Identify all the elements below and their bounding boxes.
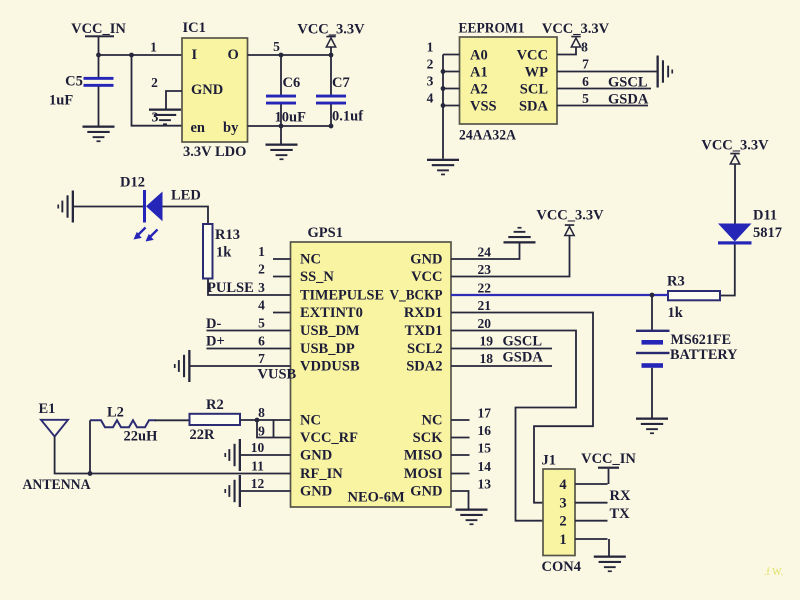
svg-text:0.1uf: 0.1uf [332,109,363,125]
svg-text:3: 3 [559,496,566,512]
svg-text:ANTENNA: ANTENNA [23,477,91,493]
svg-text:MS621FE: MS621FE [671,332,732,348]
svg-text:VCC_3.3V: VCC_3.3V [536,208,604,224]
svg-text:TX: TX [610,506,631,522]
svg-text:VCC_3.3V: VCC_3.3V [542,21,610,37]
svg-text:J1: J1 [542,453,557,469]
svg-text:BATTERY: BATTERY [670,347,738,363]
svg-text:1: 1 [427,40,434,55]
svg-text:17: 17 [478,406,492,421]
svg-text:2: 2 [151,75,158,90]
svg-text:4: 4 [427,91,434,106]
svg-text:GPS1: GPS1 [308,225,343,241]
svg-text:NC: NC [422,413,443,429]
svg-text:D+: D+ [206,334,225,350]
svg-text:SDA2: SDA2 [406,359,442,375]
svg-text:NEO-6M: NEO-6M [348,490,406,506]
svg-text:LED: LED [171,188,201,204]
svg-text:19: 19 [480,334,494,349]
svg-text:R13: R13 [215,227,240,243]
svg-text:24: 24 [478,245,492,260]
svg-text:GND: GND [191,82,223,98]
svg-text:C6: C6 [283,75,301,91]
svg-text:SCL: SCL [520,82,549,98]
svg-text:10: 10 [251,440,265,455]
svg-text:23: 23 [478,262,492,277]
svg-text:D11: D11 [753,208,777,224]
svg-text:5: 5 [582,91,589,106]
svg-text:USB_DP: USB_DP [300,341,355,357]
svg-text:15: 15 [478,441,492,456]
svg-text:RX: RX [610,488,631,504]
svg-text:5: 5 [273,39,280,54]
svg-text:GSCL: GSCL [608,75,648,91]
svg-text:VDDUSB: VDDUSB [300,359,360,375]
svg-text:6: 6 [258,334,265,349]
svg-text:4: 4 [258,298,265,313]
svg-text:VCC_IN: VCC_IN [581,451,636,467]
svg-text:VCC_3.3V: VCC_3.3V [297,22,365,38]
svg-text:.f W.: .f W. [764,567,783,578]
svg-text:22R: 22R [190,427,216,443]
svg-text:EXTINT0: EXTINT0 [300,305,363,321]
svg-text:TXD1: TXD1 [405,323,443,339]
svg-text:V_BCKP: V_BCKP [390,288,443,304]
svg-text:1uF: 1uF [49,93,73,109]
svg-text:7: 7 [582,57,589,72]
svg-text:21: 21 [478,298,492,313]
svg-text:5817: 5817 [753,225,782,241]
svg-text:3: 3 [258,280,265,295]
svg-text:VCC_RF: VCC_RF [300,430,358,446]
svg-text:SDA: SDA [519,99,549,115]
svg-text:1: 1 [150,40,157,55]
svg-text:SCK: SCK [413,430,444,446]
svg-text:VCC: VCC [411,269,442,285]
svg-text:en: en [191,120,206,136]
svg-text:GSCL: GSCL [503,334,543,350]
svg-text:D12: D12 [120,175,145,191]
svg-text:NC: NC [300,413,321,429]
svg-text:by: by [223,120,239,136]
svg-text:VCC_IN: VCC_IN [71,21,126,37]
svg-text:10uF: 10uF [275,110,307,126]
svg-text:VCC_3.3V: VCC_3.3V [701,138,769,154]
svg-text:8: 8 [581,40,588,55]
svg-text:1k: 1k [216,245,232,261]
svg-text:GND: GND [300,484,332,500]
svg-text:NC: NC [300,252,321,268]
svg-text:22uH: 22uH [124,429,159,445]
svg-text:1: 1 [559,532,566,548]
svg-text:1: 1 [258,244,265,259]
svg-text:11: 11 [251,458,264,473]
svg-text:GND: GND [300,448,332,464]
svg-text:12: 12 [251,476,265,491]
svg-text:A2: A2 [470,82,488,98]
svg-text:4: 4 [559,477,566,493]
svg-text:VUSB: VUSB [258,367,297,383]
svg-text:14: 14 [478,459,492,474]
svg-text:RXD1: RXD1 [404,305,443,321]
svg-text:7: 7 [258,351,265,366]
svg-text:IC1: IC1 [183,20,206,36]
svg-text:1k: 1k [668,305,684,321]
svg-text:EEPROM1: EEPROM1 [459,21,525,37]
svg-text:PULSE: PULSE [207,280,254,296]
svg-text:16: 16 [478,423,492,438]
svg-text:3: 3 [152,110,159,125]
svg-text:20: 20 [478,316,492,331]
svg-text:VSS: VSS [470,99,497,115]
svg-text:2: 2 [559,514,566,530]
svg-text:C5: C5 [65,74,83,90]
svg-text:SS_N: SS_N [300,269,334,285]
svg-text:GSDA: GSDA [503,350,544,366]
svg-text:2: 2 [258,262,265,277]
svg-text:3: 3 [427,74,434,89]
svg-text:5: 5 [258,316,265,331]
svg-text:3.3V LDO: 3.3V LDO [183,144,246,160]
svg-text:24AA32A: 24AA32A [459,128,516,144]
svg-text:GND: GND [410,252,442,268]
svg-text:GND: GND [410,484,442,500]
svg-text:CON4: CON4 [542,559,581,575]
svg-text:A1: A1 [470,65,488,81]
svg-text:8: 8 [258,405,265,420]
svg-text:GSDA: GSDA [608,92,649,108]
svg-text:O: O [228,47,239,63]
svg-text:9: 9 [258,423,265,438]
svg-text:13: 13 [478,477,492,492]
svg-text:MOSI: MOSI [404,466,443,482]
svg-text:R2: R2 [206,397,224,413]
svg-text:MISO: MISO [404,448,443,464]
svg-text:USB_DM: USB_DM [300,323,360,339]
svg-text:2: 2 [427,57,434,72]
svg-text:WP: WP [525,65,549,81]
svg-text:A0: A0 [470,48,488,64]
svg-text:R3: R3 [667,274,685,290]
svg-text:I: I [192,47,198,63]
svg-text:VCC: VCC [517,48,548,64]
svg-text:C7: C7 [332,75,350,91]
svg-text:SCL2: SCL2 [407,341,442,357]
svg-text:18: 18 [480,351,494,366]
svg-text:TIMEPULSE: TIMEPULSE [300,288,384,304]
svg-text:E1: E1 [39,401,56,417]
svg-text:RF_IN: RF_IN [300,466,343,482]
svg-text:L2: L2 [107,405,124,421]
svg-text:6: 6 [582,74,589,89]
svg-text:22: 22 [478,281,492,296]
